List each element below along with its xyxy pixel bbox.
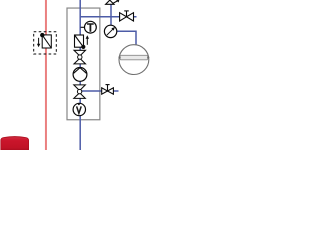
temperature sensor T [81, 26, 86, 28]
valve V2 (globe valve, lower) [74, 85, 86, 91]
wire: blue horizontal pipe (top) [80, 16, 136, 18]
check valve (left, in dashed box) [34, 32, 57, 54]
pressure gauge [104, 25, 116, 37]
shut-off valve (lower right) [102, 88, 108, 94]
shut-off valve (top right) [120, 13, 127, 21]
wire: blue main vertical pipe [79, 0, 81, 150]
wire: blue vertical branch to safety valve / gauge [110, 4, 112, 27]
wire: gauge to expansion vessel [111, 31, 136, 46]
expansion vessel [119, 45, 149, 75]
safety valve (top right) [106, 0, 114, 4]
control cabinet box [67, 8, 100, 120]
valve V1 (globe valve, upper) [74, 50, 86, 56]
check valve (in box) [75, 35, 84, 47]
boiler (red tank, bottom-left, cropped) [1, 137, 29, 150]
wire: blue horizontal branch (lower right) [82, 90, 119, 92]
wire: red supply pipe (vertical, left) [45, 0, 47, 150]
flow meter V [73, 103, 85, 115]
pump P1 [73, 68, 87, 82]
